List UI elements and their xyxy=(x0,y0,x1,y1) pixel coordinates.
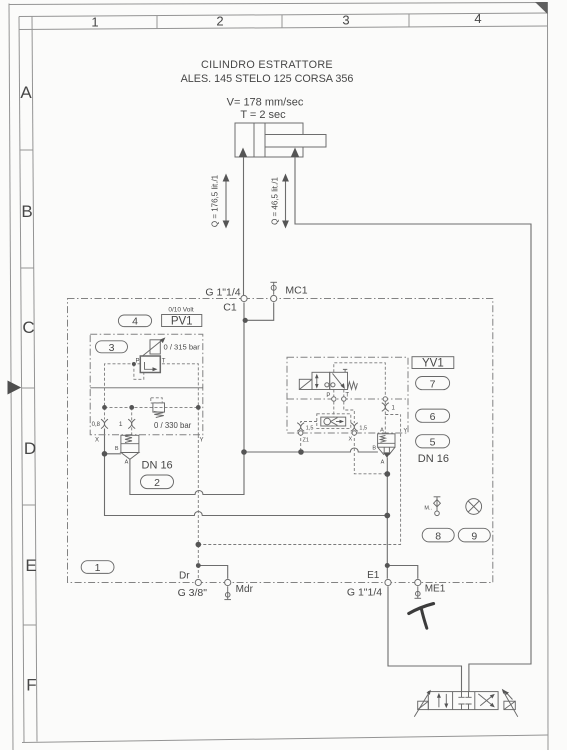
YV1 seat circles xyxy=(325,383,329,387)
center position blocked ports xyxy=(458,692,471,698)
CHECK VALVE xyxy=(317,414,351,429)
port ME1 xyxy=(415,579,421,585)
sub-block item 3 midline xyxy=(90,387,203,389)
pilot check valve left link xyxy=(301,422,355,434)
svg-text:CILINDRO ESTRATTORE: CILINDRO ESTRATTORE xyxy=(201,59,333,71)
ORIFICE 1 (item3) xyxy=(119,419,135,428)
MANIFOLD BOUNDARY xyxy=(68,299,493,583)
PV1 solenoid xyxy=(150,340,160,354)
solenoid a xyxy=(418,701,429,709)
balloon 2 xyxy=(141,475,174,489)
CARTRIDGE VALVE 2 xyxy=(115,435,173,472)
svg-text:5: 5 xyxy=(430,437,436,449)
row tick A-B xyxy=(20,149,33,151)
svg-text:1: 1 xyxy=(119,421,123,428)
svg-text:C: C xyxy=(22,318,34,337)
svg-text:ALES. 145 STELO 125 CORSA 356: ALES. 145 STELO 125 CORSA 356 xyxy=(181,73,354,85)
svg-text:F: F xyxy=(26,676,36,695)
svg-text:0 / 330 bar: 0 / 330 bar xyxy=(154,421,192,430)
svg-text:1: 1 xyxy=(95,562,101,574)
column tick 1-2 xyxy=(156,16,158,29)
PILOT LINES (dashed) xyxy=(105,363,401,579)
TITLE BLOCK TEXT xyxy=(181,59,354,121)
svg-text:B: B xyxy=(372,446,376,452)
TAG YV1 xyxy=(412,357,454,370)
piston rod xyxy=(265,135,326,148)
pilot Y loop line xyxy=(198,415,400,545)
wire MC1 branch xyxy=(245,303,274,321)
CARTRIDGE VALVE 5 xyxy=(372,428,449,466)
pilot Y drop item3 xyxy=(197,407,199,435)
valve body xyxy=(428,692,498,710)
svg-text:Mdr: Mdr xyxy=(236,584,254,595)
wire Mdr branch xyxy=(198,566,227,579)
PV1 valve body xyxy=(140,356,160,373)
node pilot P xyxy=(132,362,136,366)
port arrow cap side xyxy=(239,148,247,158)
wire E1 vertical xyxy=(386,457,388,578)
cartridge 5 poppet tip xyxy=(383,452,391,457)
svg-text:G 1"1/4: G 1"1/4 xyxy=(347,587,382,599)
cylinder body xyxy=(235,123,303,157)
pilot PV1 T line xyxy=(162,364,198,408)
node Y loop join xyxy=(196,542,202,548)
port Z1 xyxy=(299,431,303,435)
relief valve pilot box xyxy=(151,398,162,403)
PORT CIRCLES xyxy=(195,295,421,585)
cartridge 2 divider xyxy=(121,443,139,445)
MAIN WIRES xyxy=(105,157,532,692)
ORIFICE 1,5 Z1 xyxy=(297,423,313,432)
sub-block YV1 boundary xyxy=(287,357,408,433)
check valve dashed box xyxy=(317,414,351,429)
pilot Z1 line xyxy=(300,433,302,452)
JUNCTION DOTS xyxy=(102,318,391,568)
wire rod side to bottom valve xyxy=(295,157,531,692)
port C1 xyxy=(241,295,247,301)
svg-text:A: A xyxy=(125,460,129,466)
svg-text:MC1: MC1 xyxy=(285,285,307,297)
node B2 join xyxy=(102,451,108,457)
GAUGE SYMBOL xyxy=(466,499,482,515)
balloon 9 xyxy=(458,528,490,542)
piston line 1 xyxy=(253,123,255,157)
svg-text:P: P xyxy=(326,393,330,399)
svg-text:7: 7 xyxy=(430,378,436,390)
TEST POINT MC1 xyxy=(270,282,277,294)
top strip line2 xyxy=(19,26,548,30)
port P yv1 plate xyxy=(332,397,336,401)
port Dr xyxy=(195,579,201,585)
column tick 2-3 xyxy=(281,15,283,28)
svg-text:T: T xyxy=(345,393,349,399)
svg-text:Q = 176,5 lit./1: Q = 176,5 lit./1 xyxy=(211,174,220,227)
PV1 proportional arrow xyxy=(143,339,163,355)
port MC1 xyxy=(271,295,277,301)
piston line 2 xyxy=(264,123,266,157)
svg-text:V= 178 mm/sec: V= 178 mm/sec xyxy=(227,97,304,109)
svg-text:Y: Y xyxy=(404,428,408,434)
cartridge 5 poppet funnel xyxy=(378,447,395,455)
svg-text:B: B xyxy=(21,202,32,221)
balloon 5 xyxy=(416,435,450,448)
wire X port down and across to E1 line xyxy=(105,429,388,516)
FLOW ARROWS xyxy=(211,174,289,229)
svg-text:C1: C1 xyxy=(223,302,237,314)
pilot drop to orifice 0,8 xyxy=(104,407,106,419)
PV1 internal arrow xyxy=(145,362,155,369)
pilot P stub xyxy=(333,390,335,418)
svg-text:A: A xyxy=(381,460,385,466)
svg-text:1,5: 1,5 xyxy=(359,426,367,432)
pilot hook to Y xyxy=(385,414,400,416)
check valve body xyxy=(321,417,346,426)
relief valve spring xyxy=(154,412,164,418)
scan corner mark xyxy=(535,2,548,14)
balloon 8 xyxy=(422,528,454,542)
check valve poppet xyxy=(324,418,331,425)
YV1 solenoid box xyxy=(299,379,312,389)
svg-text:3: 3 xyxy=(109,342,115,354)
balloon 3 xyxy=(96,341,128,353)
port arrow rod side xyxy=(291,148,299,158)
svg-text:E: E xyxy=(25,556,36,575)
cartridge 2 spring xyxy=(125,435,132,443)
wire E1 to bottom valve xyxy=(388,586,462,691)
CYLINDER (extractor cylinder) xyxy=(235,123,326,157)
solenoid b proportional arrow xyxy=(503,691,518,717)
svg-text:0/10 Volt: 0/10 Volt xyxy=(168,306,193,313)
svg-text:1,5: 1,5 xyxy=(306,426,314,432)
DIRECTIONAL VALVE (bottom) xyxy=(414,689,518,717)
node ME1 join xyxy=(385,563,390,568)
border outer right xyxy=(547,2,550,750)
position a arrows xyxy=(438,696,440,708)
TEST POINT ME1 xyxy=(415,586,422,598)
PORT LABELS xyxy=(178,285,446,600)
balloon 1 xyxy=(81,561,114,574)
svg-text:X: X xyxy=(349,437,353,443)
ORIFICE 1,5 X xyxy=(351,423,367,432)
flow arrow cap side xyxy=(225,180,227,222)
pilot PV1 P line xyxy=(105,364,141,408)
YV1 position 1 xyxy=(312,372,330,389)
TAG PV1 xyxy=(162,306,202,327)
flow arrow rod side xyxy=(285,180,287,222)
node pilot mid xyxy=(129,405,134,410)
row tick B-C xyxy=(21,267,34,269)
svg-text:YV1: YV1 xyxy=(422,357,444,369)
svg-text:1: 1 xyxy=(91,15,98,30)
svg-text:T = 2 sec: T = 2 sec xyxy=(240,109,286,121)
solenoid a proportional arrow xyxy=(414,692,429,717)
left strip line2 xyxy=(32,17,37,742)
pilot drop to cartridge 2 xyxy=(131,407,133,435)
node Mdr join xyxy=(196,563,201,568)
node X-E1 join xyxy=(384,471,390,477)
balloon 4 xyxy=(118,315,151,327)
TEST POINT M xyxy=(424,497,440,516)
balloon 7 xyxy=(416,377,450,390)
centerline fold pointer xyxy=(8,381,22,395)
svg-text:0,8: 0,8 xyxy=(92,422,101,428)
wire ME1 branch xyxy=(387,566,418,579)
check valve arrow xyxy=(336,421,342,423)
TEST POINT Mdr xyxy=(224,586,231,599)
YV1 position 2 diagonal xyxy=(333,373,344,387)
port X yv1 xyxy=(352,431,356,435)
svg-text:8: 8 xyxy=(435,530,441,542)
port E1 xyxy=(385,579,391,585)
border inner bottom xyxy=(22,735,548,743)
port pilot yv1 plate xyxy=(383,397,387,401)
node MC1 join xyxy=(243,318,248,323)
pilot PV1 loop xyxy=(134,364,144,380)
cartridge 5 body xyxy=(378,434,395,447)
svg-text:G 1"1/4: G 1"1/4 xyxy=(205,287,240,299)
svg-text:9: 9 xyxy=(471,530,477,542)
pilot node line xyxy=(105,406,199,408)
relief valve body xyxy=(153,403,165,412)
svg-text:Q = 46,5 lit./1: Q = 46,5 lit./1 xyxy=(271,177,280,225)
node E1-line join xyxy=(384,513,390,519)
svg-text:A: A xyxy=(380,428,384,434)
solenoid b xyxy=(504,701,515,709)
left strip line1 xyxy=(19,17,24,743)
svg-text:0 / 315 bar: 0 / 315 bar xyxy=(164,342,201,351)
border outer top xyxy=(9,3,548,5)
cartridge 5 spring xyxy=(380,435,385,442)
YV1 blocked top port xyxy=(343,369,347,372)
svg-text:Dr: Dr xyxy=(179,571,190,582)
svg-text:4: 4 xyxy=(132,316,138,328)
svg-text:DN 16: DN 16 xyxy=(418,453,449,465)
row tick C-D xyxy=(22,387,35,389)
wire cap side to C1 xyxy=(243,157,245,299)
row tick E-F xyxy=(23,624,36,626)
wire C1 down to cartridge 2 A xyxy=(130,303,244,495)
svg-text:6: 6 xyxy=(430,411,436,423)
pilot YV1 top link xyxy=(334,363,386,397)
PEN MARK xyxy=(409,604,434,629)
node pilot left xyxy=(102,405,107,410)
YV1 position 2 xyxy=(330,372,348,389)
YV1 position 1 arrow xyxy=(316,376,318,386)
top strip line1 xyxy=(19,13,548,17)
svg-text:ME1: ME1 xyxy=(425,584,446,595)
port T yv1 plate xyxy=(342,397,346,401)
solenoid b extra arrow xyxy=(506,692,513,699)
svg-text:2: 2 xyxy=(154,477,160,489)
ORIFICE 0,8 xyxy=(92,419,108,428)
position b crossed arrows xyxy=(478,694,493,706)
cartridge 2 poppet funnel xyxy=(121,453,139,460)
svg-text:E1: E1 xyxy=(367,570,380,581)
pilot orifice 1 drop xyxy=(384,402,386,434)
svg-text:3: 3 xyxy=(342,13,349,28)
svg-text:4: 4 xyxy=(474,11,481,26)
pilot X line to E1 xyxy=(354,433,387,474)
port Mdr xyxy=(225,579,231,585)
svg-text:B: B xyxy=(115,446,119,452)
pilot T stub xyxy=(344,390,355,424)
svg-text:D: D xyxy=(24,439,36,458)
svg-text:A: A xyxy=(20,83,32,102)
wire link to cartridge 2 B xyxy=(105,453,121,455)
svg-text:G 3/8": G 3/8" xyxy=(178,587,208,599)
svg-text:Y: Y xyxy=(199,438,203,444)
column tick 3-4 xyxy=(408,14,410,27)
node Z1 join xyxy=(298,449,304,455)
svg-text:Z1: Z1 xyxy=(303,438,309,444)
balloon 6 xyxy=(416,409,450,422)
svg-text:DN 16: DN 16 xyxy=(142,459,173,471)
svg-text:2: 2 xyxy=(216,14,223,29)
sub-block item 3 boundary xyxy=(90,334,203,435)
pilot drain line to Dr xyxy=(197,435,199,579)
svg-text:X: X xyxy=(95,438,99,444)
ORIFICE 1 (yv1) xyxy=(382,403,396,412)
row tick D-E xyxy=(22,504,35,506)
svg-text:PV1: PV1 xyxy=(171,315,193,327)
sub-block YV1 midline xyxy=(287,398,408,400)
node C1-B5 xyxy=(241,449,247,455)
cartridge 2 body xyxy=(121,435,139,452)
svg-text:T: T xyxy=(162,359,166,365)
svg-text:M..: M.. xyxy=(424,506,432,512)
SOLENOID VALVE YV1 xyxy=(299,369,357,398)
wire C1 to cartridge 5 B xyxy=(244,448,378,452)
border outer left xyxy=(9,4,13,750)
cartridge 5 divider xyxy=(378,442,395,444)
ITEM BALLOONS xyxy=(81,315,490,574)
node pilot right xyxy=(196,405,201,410)
YV1 spring xyxy=(348,382,358,389)
RELIEF VALVE 330 bar xyxy=(151,398,192,430)
PROPORTIONAL RELIEF VALVE PV1 xyxy=(135,337,200,372)
manifold block boundary xyxy=(68,299,493,583)
svg-text:P: P xyxy=(135,359,139,365)
